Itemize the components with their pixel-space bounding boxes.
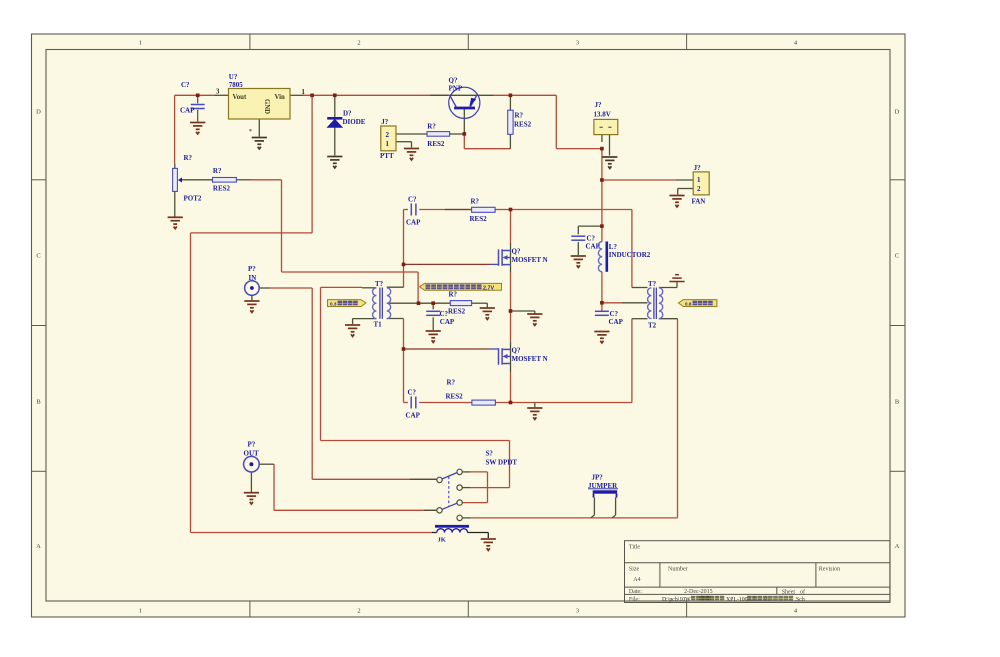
- svg-text:2: 2: [357, 608, 360, 615]
- svg-text:1: 1: [697, 176, 701, 184]
- svg-text:2: 2: [697, 185, 701, 193]
- svg-text:Q?: Q?: [512, 248, 521, 256]
- svg-text:R?: R?: [515, 112, 524, 120]
- svg-text:J?: J?: [694, 164, 702, 172]
- svg-text:C?: C?: [587, 235, 596, 243]
- svg-text:13.8V: 13.8V: [594, 111, 611, 119]
- svg-text:CAP: CAP: [180, 107, 195, 115]
- svg-text:Size: Size: [629, 566, 640, 572]
- svg-text:CAP: CAP: [609, 318, 624, 326]
- svg-text:PNP: PNP: [449, 85, 463, 93]
- svg-text:U?: U?: [229, 73, 238, 81]
- svg-text:SW DPDT: SW DPDT: [486, 459, 518, 467]
- svg-text:R?: R?: [184, 154, 193, 162]
- svg-text:JK: JK: [438, 537, 446, 544]
- svg-text:B: B: [36, 398, 41, 405]
- svg-text:Vout: Vout: [233, 94, 247, 101]
- svg-text:T?: T?: [648, 280, 657, 288]
- svg-text:1: 1: [386, 140, 390, 148]
- svg-text:L?: L?: [609, 243, 618, 251]
- svg-text:Date:: Date:: [629, 589, 642, 595]
- svg-text:XPL-100: XPL-100: [748, 597, 770, 603]
- svg-text:C?: C?: [610, 310, 619, 318]
- svg-text:R?: R?: [213, 167, 222, 175]
- svg-text:RES2: RES2: [448, 308, 466, 316]
- svg-text:T2: T2: [648, 322, 657, 330]
- svg-text:C?: C?: [181, 81, 190, 89]
- svg-text:R?: R?: [447, 379, 456, 387]
- svg-text:INDUCTOR2: INDUCTOR2: [609, 251, 651, 259]
- svg-text:*: *: [249, 129, 252, 135]
- svg-text:C: C: [36, 252, 40, 259]
- svg-text:CAP: CAP: [440, 318, 455, 326]
- svg-text:D: D: [895, 108, 900, 115]
- svg-text:R?: R?: [449, 291, 458, 299]
- svg-text:C: C: [895, 252, 899, 259]
- svg-text:CAP: CAP: [406, 412, 421, 420]
- svg-text:3: 3: [216, 89, 220, 96]
- svg-text:DIODE: DIODE: [343, 118, 366, 126]
- svg-text:T?: T?: [375, 280, 384, 288]
- svg-text:of: of: [800, 588, 805, 595]
- svg-text:S?: S?: [486, 450, 494, 458]
- svg-text:2: 2: [386, 131, 390, 139]
- svg-text:IN: IN: [249, 274, 257, 282]
- svg-text:Revision: Revision: [819, 566, 840, 572]
- svg-text:7805: 7805: [229, 81, 244, 89]
- svg-text:Q?: Q?: [512, 347, 521, 355]
- svg-text:GND: GND: [263, 99, 270, 114]
- svg-text:File:: File:: [629, 597, 640, 603]
- svg-text:RES2: RES2: [446, 393, 464, 401]
- svg-text:R?: R?: [427, 123, 436, 131]
- svg-text:A4: A4: [633, 577, 640, 583]
- svg-text:RES2: RES2: [470, 215, 488, 223]
- svg-text:JP?: JP?: [592, 474, 604, 482]
- svg-text:2-Dec-2015: 2-Dec-2015: [684, 589, 713, 595]
- svg-text:C?: C?: [408, 389, 417, 397]
- svg-text:Title: Title: [629, 545, 640, 551]
- svg-text:T1: T1: [374, 321, 383, 329]
- svg-text:Vin: Vin: [275, 94, 286, 101]
- svg-text:2.7V: 2.7V: [483, 285, 494, 291]
- svg-text:RES2: RES2: [427, 140, 445, 148]
- svg-text:D:\pcb\10W: D:\pcb\10W: [662, 597, 691, 603]
- svg-text:1: 1: [139, 40, 142, 47]
- svg-text:0.6: 0.6: [685, 301, 692, 306]
- svg-text:R?: R?: [471, 197, 480, 205]
- svg-text:PTT: PTT: [380, 152, 394, 160]
- svg-text:XPL-100: XPL-100: [726, 597, 748, 603]
- svg-text:A: A: [36, 543, 41, 550]
- svg-text:2: 2: [357, 40, 360, 47]
- svg-text:MOSFET N: MOSFET N: [512, 256, 548, 264]
- svg-text:1: 1: [302, 89, 306, 96]
- svg-text:J?: J?: [381, 118, 389, 126]
- svg-text:RES2: RES2: [514, 121, 532, 129]
- svg-text:B: B: [895, 398, 900, 405]
- svg-text:Q?: Q?: [449, 77, 458, 85]
- svg-text:Sheet: Sheet: [782, 589, 796, 595]
- svg-text:3: 3: [576, 40, 579, 47]
- svg-text:P?: P?: [248, 265, 256, 273]
- svg-text:A: A: [895, 543, 900, 550]
- svg-text:D: D: [36, 108, 41, 115]
- svg-text:D?: D?: [343, 110, 352, 118]
- svg-text:Number: Number: [668, 566, 688, 572]
- svg-text:POT2: POT2: [184, 195, 202, 203]
- svg-text:.Sch: .Sch: [795, 597, 805, 603]
- svg-text:C?: C?: [408, 196, 417, 204]
- svg-text:CAP: CAP: [406, 219, 421, 227]
- svg-text:MOSFET N: MOSFET N: [512, 355, 548, 363]
- svg-text:RES2: RES2: [213, 184, 231, 192]
- svg-text:3: 3: [576, 608, 579, 615]
- svg-text:0.3: 0.3: [330, 301, 337, 306]
- svg-text:J?: J?: [595, 101, 603, 109]
- svg-text:FAN: FAN: [692, 198, 706, 206]
- svg-text:P?: P?: [248, 441, 256, 449]
- svg-text:1: 1: [139, 608, 142, 615]
- svg-text:OUT: OUT: [244, 450, 260, 458]
